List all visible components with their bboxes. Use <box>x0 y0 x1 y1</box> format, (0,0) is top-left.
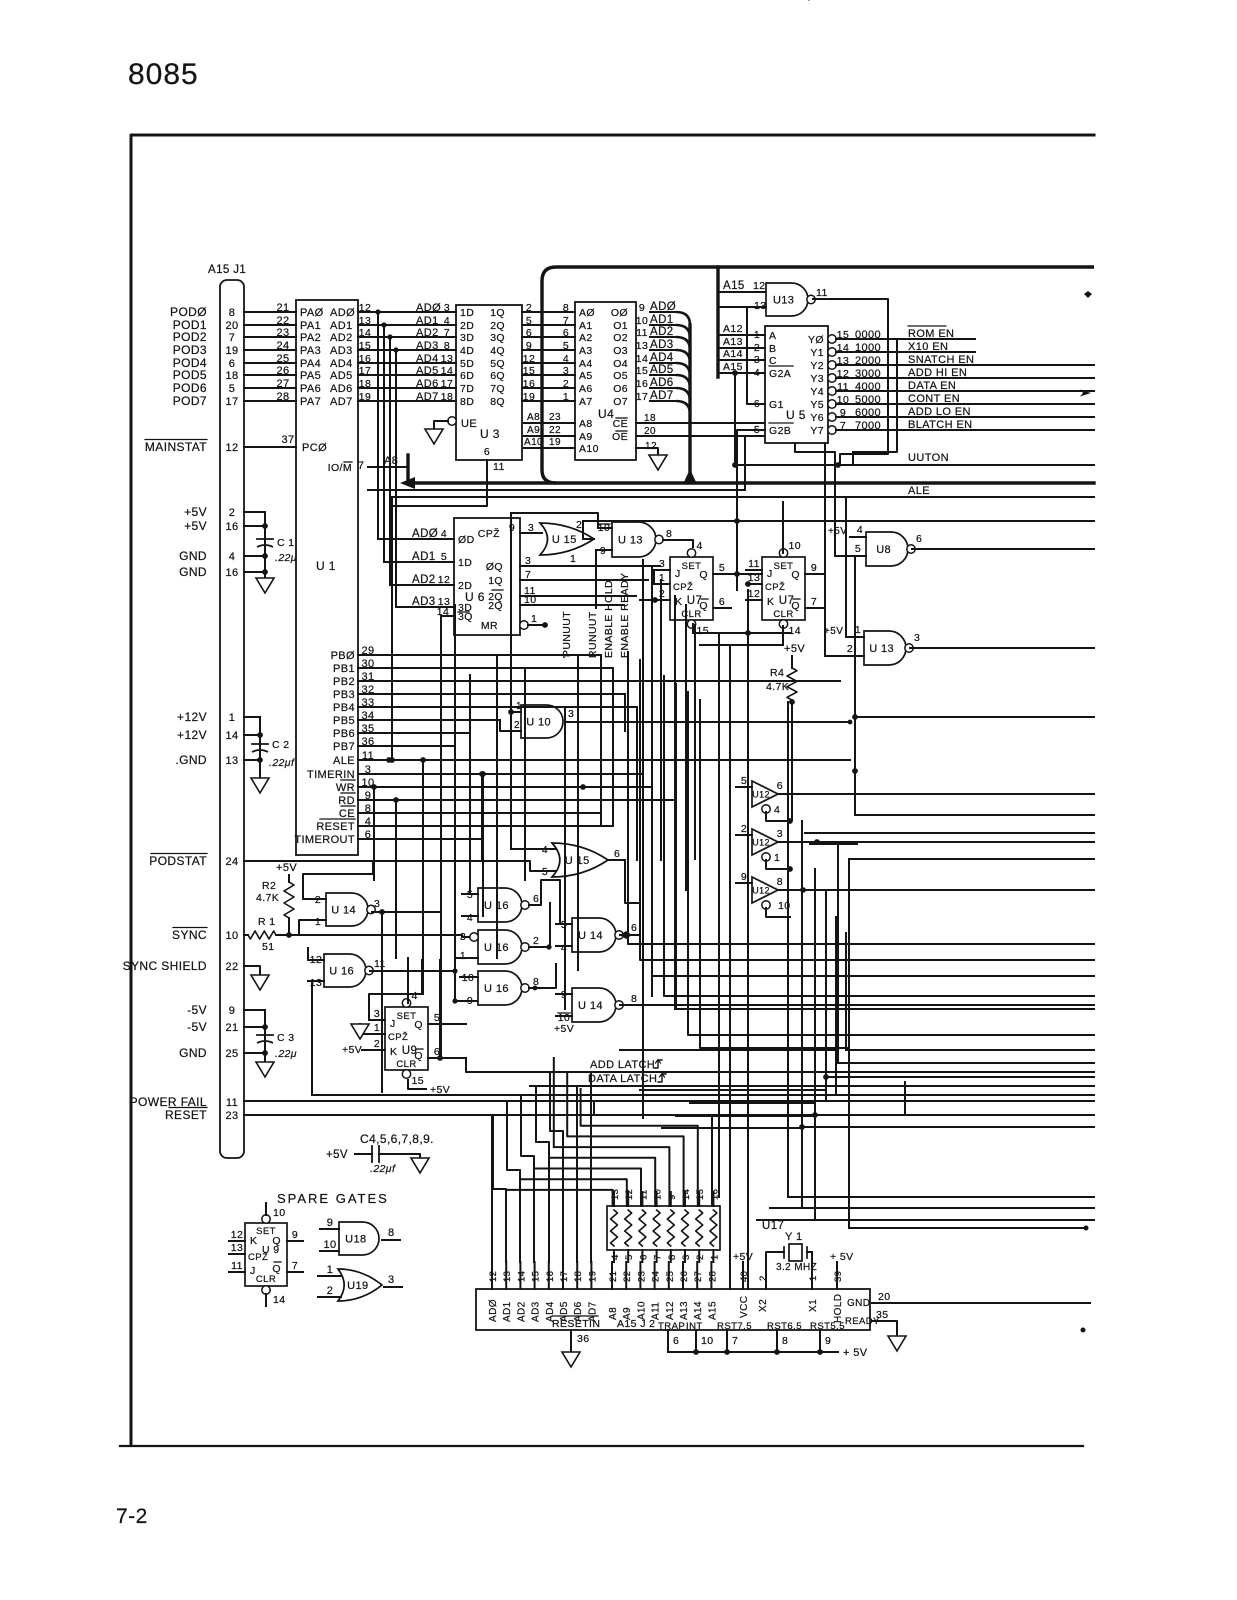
svg-text:J: J <box>767 568 773 580</box>
U5 G2B wire <box>737 430 765 590</box>
crystal wires <box>766 1252 779 1289</box>
U17 bottom pin 7 <box>656 1250 658 1262</box>
vertical x846 <box>845 497 847 637</box>
mid stub vertical 482 <box>481 774 483 860</box>
U17 resistor 8 <box>710 1210 717 1246</box>
nand U8 <box>866 532 908 566</box>
svg-text:11: 11 <box>636 327 648 339</box>
svg-text:19: 19 <box>225 345 238 357</box>
svg-text:+5V: +5V <box>824 626 843 637</box>
svg-text:6: 6 <box>673 1335 679 1347</box>
or U15 b <box>552 843 608 877</box>
bus wire x675 <box>674 596 676 1009</box>
resistor pack U17 <box>607 1206 720 1250</box>
riser dots <box>812 1112 818 1118</box>
svg-text:O1: O1 <box>613 320 628 332</box>
svg-text:R 1: R 1 <box>258 916 276 928</box>
svg-text:A12: A12 <box>723 323 743 335</box>
svg-text:9: 9 <box>327 1217 334 1229</box>
svg-text:PODØ: PODØ <box>170 305 207 319</box>
svg-text:A14: A14 <box>723 348 743 360</box>
svg-text:A15: A15 <box>723 280 745 292</box>
capacitor C2 .22uf <box>252 743 268 745</box>
bus corner U17 line 4 <box>554 1058 670 1206</box>
svg-text:U12: U12 <box>752 886 770 896</box>
net ROM EN <box>836 338 975 340</box>
svg-text:1Q: 1Q <box>490 307 505 319</box>
U17 bottom pin 3 <box>684 1250 686 1262</box>
U4 ground <box>649 455 667 470</box>
svg-text:11: 11 <box>493 461 505 473</box>
svg-text:28: 28 <box>276 391 289 403</box>
svg-text:PA2: PA2 <box>300 332 321 344</box>
svg-text:Q: Q <box>414 1019 423 1031</box>
svg-text:23: 23 <box>636 1271 647 1282</box>
wire J1 to U1 PA7 <box>244 400 296 402</box>
nand U16 c <box>478 930 522 964</box>
svg-text:3: 3 <box>444 302 450 314</box>
stray dot right <box>1081 1328 1086 1333</box>
svg-text:1: 1 <box>229 712 236 724</box>
svg-text:U17: U17 <box>762 1220 784 1232</box>
wire U3 to U4 A3 <box>522 349 575 351</box>
svg-text:1: 1 <box>774 852 780 864</box>
svg-text:PB1: PB1 <box>333 663 355 675</box>
J2 bottom +5V rail <box>668 1351 838 1353</box>
svg-text:4.7K: 4.7K <box>766 681 789 693</box>
svg-text:SET: SET <box>397 1011 417 1022</box>
junction dots C2 <box>257 732 263 738</box>
svg-text:ALE: ALE <box>908 485 930 497</box>
svg-text:2: 2 <box>576 519 582 531</box>
svg-text:+ 5V: + 5V <box>830 1251 854 1263</box>
svg-text:AD7: AD7 <box>416 391 439 403</box>
svg-text:3.2 MHZ: 3.2 MHZ <box>776 1262 817 1273</box>
svg-text:26: 26 <box>679 1271 690 1282</box>
svg-text:AD6: AD6 <box>416 378 439 390</box>
svg-text:AD3: AD3 <box>416 340 439 352</box>
ALE riser from U1 pin 11 <box>391 497 393 760</box>
decoder U5 <box>765 326 828 443</box>
svg-text:+5V: +5V <box>828 526 847 537</box>
U17 top pin 14 <box>684 1192 686 1206</box>
svg-text:U 14: U 14 <box>578 930 603 942</box>
net ALE <box>392 496 1094 498</box>
buffer U12 a <box>752 781 778 807</box>
net CONT EN <box>836 403 1094 405</box>
DATA EN arrowhead <box>1080 390 1091 397</box>
svg-text:C 3: C 3 <box>277 1032 295 1044</box>
svg-text:8: 8 <box>777 876 783 888</box>
svg-text:25: 25 <box>225 1048 238 1060</box>
svg-text:AD6: AD6 <box>330 383 353 395</box>
or U19 <box>338 1269 382 1301</box>
wire U3 to U4 A7 <box>522 400 575 402</box>
wire RESET <box>244 1114 905 1116</box>
ground C4 <box>411 1158 429 1173</box>
svg-text:+12V: +12V <box>177 728 207 742</box>
UUTON stub up <box>734 373 736 465</box>
bus line right y1100 <box>826 1100 1094 1102</box>
capacitor C3 .22u <box>257 1034 273 1036</box>
svg-text:27: 27 <box>276 378 289 390</box>
svg-text:K: K <box>390 1046 397 1058</box>
svg-text:3: 3 <box>528 522 534 534</box>
svg-text:PB6: PB6 <box>333 728 355 740</box>
bus line right y890 <box>849 889 1094 891</box>
U7a q wire <box>713 573 762 575</box>
and U10 <box>521 705 563 738</box>
bus wire v511 <box>510 513 512 849</box>
svg-text:3: 3 <box>681 1254 692 1260</box>
svg-text:GND: GND <box>847 1298 870 1309</box>
svg-text:9: 9 <box>292 1229 298 1241</box>
svg-text:3: 3 <box>388 1274 395 1286</box>
svg-text:12: 12 <box>748 588 760 600</box>
bus elbow AD0 <box>676 312 690 325</box>
svg-text:36: 36 <box>577 1333 589 1345</box>
svg-text:17: 17 <box>225 396 238 408</box>
svg-text:VCC: VCC <box>739 1296 750 1318</box>
wire U1 AD3 to U3 <box>358 349 456 351</box>
svg-text:9: 9 <box>639 302 645 314</box>
svg-text:4.7K: 4.7K <box>256 892 279 904</box>
svg-text:3: 3 <box>914 632 920 644</box>
svg-text:U18: U18 <box>345 1234 366 1246</box>
svg-text:20: 20 <box>225 320 238 332</box>
svg-text:14: 14 <box>441 365 453 377</box>
or U15 a <box>540 523 594 555</box>
svg-text:O6: O6 <box>613 383 628 395</box>
svg-text:U19: U19 <box>347 1280 368 1292</box>
U7b set wire <box>782 502 784 553</box>
svg-text:8D: 8D <box>460 396 474 408</box>
bus wire v497 <box>496 655 498 958</box>
bus line bottom y1220 <box>757 1219 1094 1221</box>
svg-text:PAØ: PAØ <box>300 307 324 319</box>
wire U1 TIMERIN <box>358 773 643 775</box>
svg-text:7: 7 <box>653 1254 664 1260</box>
svg-text:4Q: 4Q <box>490 345 505 357</box>
svg-text:+5V: +5V <box>184 519 207 533</box>
svg-text:22: 22 <box>622 1271 633 1282</box>
svg-text:2D: 2D <box>460 320 474 332</box>
U17 bottom pin 2 <box>698 1250 700 1262</box>
svg-text:7-2: 7-2 <box>116 1505 148 1528</box>
svg-text:A11: A11 <box>651 1302 662 1320</box>
bus corner U17 line 5 <box>549 1158 655 1206</box>
bus corner mid fan y1035 <box>688 692 849 1035</box>
U17 bottom pin 4 <box>613 1250 615 1262</box>
svg-text:+5V: +5V <box>184 505 207 519</box>
svg-text:8: 8 <box>631 993 637 1005</box>
svg-text:G2B: G2B <box>769 425 791 437</box>
svg-text:OØ: OØ <box>611 307 628 319</box>
svg-text:A13: A13 <box>679 1301 690 1320</box>
svg-text:5: 5 <box>855 543 861 555</box>
svg-text:7: 7 <box>292 1260 298 1272</box>
resistor R4 4.7K <box>791 656 793 668</box>
bus wire v470 <box>469 675 471 894</box>
svg-text:10: 10 <box>225 930 238 942</box>
svg-text:PB5: PB5 <box>333 715 355 727</box>
U7a clr wire <box>692 624 694 633</box>
svg-text:PBØ: PBØ <box>331 650 355 662</box>
svg-text:21: 21 <box>608 1271 619 1282</box>
end dot bottom line <box>1084 1226 1089 1231</box>
svg-text:K: K <box>250 1235 257 1247</box>
capacitor C4 .22uf <box>355 1153 372 1155</box>
svg-text:14: 14 <box>273 1294 285 1306</box>
svg-text:1: 1 <box>808 1275 819 1281</box>
ground C2 <box>251 778 269 793</box>
svg-text:A15: A15 <box>707 1301 718 1320</box>
bus corner U17 line 8 <box>506 1190 613 1206</box>
wire J1 to U1 PA5 <box>244 374 296 376</box>
svg-text:O3: O3 <box>613 345 628 357</box>
svg-text:CLR: CLR <box>773 609 793 620</box>
svg-text:1: 1 <box>531 613 537 625</box>
svg-text:A10: A10 <box>524 437 543 448</box>
tap AD2 down to U6 <box>389 337 391 585</box>
svg-text:1: 1 <box>327 1264 334 1276</box>
flipflop U9 spare <box>245 1223 287 1286</box>
svg-text:A9: A9 <box>527 425 540 436</box>
bus corner AD4 <box>536 1086 549 1262</box>
capacitor C1 .22u <box>257 538 273 540</box>
wire U3 to U4 A1 <box>522 324 575 326</box>
wire dots U1 rows <box>371 784 377 790</box>
svg-text:9: 9 <box>467 995 473 1007</box>
bus wire v455 <box>454 605 456 1001</box>
svg-text:A7: A7 <box>579 396 593 408</box>
wires -5V GND to C3 <box>244 1009 265 1011</box>
U7b clr wire <box>782 626 784 645</box>
svg-text:CPŽ: CPŽ <box>765 582 785 593</box>
wire U1 WR <box>358 786 652 788</box>
wire U1 PB7 run <box>358 745 455 747</box>
svg-text:ROM EN: ROM EN <box>908 328 954 340</box>
svg-text:PA3: PA3 <box>300 345 321 357</box>
svg-text:12: 12 <box>645 441 657 452</box>
wire J1 to U1 PA1 <box>244 324 296 326</box>
bus corner AD5 <box>550 1072 563 1262</box>
svg-text:14: 14 <box>789 625 801 637</box>
svg-text:7: 7 <box>444 327 450 339</box>
svg-text:ƤUNUUT: ƤUNUUT <box>561 611 573 658</box>
mid line y1128 <box>662 1127 802 1129</box>
svg-text:UE: UE <box>461 418 477 430</box>
nand U16 a <box>324 954 366 987</box>
svg-text:AD7: AD7 <box>330 396 353 408</box>
svg-text:6D: 6D <box>460 370 474 382</box>
svg-text:11: 11 <box>231 1260 243 1272</box>
svg-text:15: 15 <box>531 1271 542 1282</box>
svg-text:3: 3 <box>777 828 783 840</box>
svg-text:ENABLE READY: ENABLE READY <box>619 573 631 658</box>
wire J1 to U1 PA6 <box>244 387 296 389</box>
svg-text:22: 22 <box>549 425 561 436</box>
wire U1 PB3 run <box>358 693 625 695</box>
svg-text:A5: A5 <box>579 370 593 382</box>
svg-text:AD3: AD3 <box>330 345 353 357</box>
U17 resistor 5 <box>667 1210 674 1246</box>
ground C3 <box>256 1062 274 1077</box>
svg-text:10: 10 <box>701 1335 713 1347</box>
svg-text:5D: 5D <box>460 358 474 370</box>
svg-text:IO/M: IO/M <box>328 462 352 474</box>
buffer U12 b <box>752 829 778 855</box>
svg-text:6Q: 6Q <box>490 370 505 382</box>
junction A15 <box>732 370 738 376</box>
svg-text:13: 13 <box>441 353 453 365</box>
U17 resistor 4 <box>653 1210 660 1246</box>
bus corner U17 line 7 <box>520 1179 627 1206</box>
svg-text:4: 4 <box>229 551 236 563</box>
svg-text:CPŽ: CPŽ <box>478 527 500 540</box>
U17 bottom pin 5 <box>627 1250 629 1262</box>
svg-text:CE: CE <box>339 808 355 820</box>
svg-text:2: 2 <box>327 1285 334 1297</box>
bus wire x730 <box>729 645 731 1289</box>
thick bus bottom rail <box>409 481 1094 484</box>
svg-text:6: 6 <box>229 358 236 370</box>
svg-text:2Q: 2Q <box>488 600 503 612</box>
bus corner U17 line 6 <box>534 1169 641 1207</box>
svg-text:25: 25 <box>665 1271 676 1282</box>
nand U16 b <box>478 888 522 922</box>
svg-text:7: 7 <box>563 315 569 327</box>
wire J1 to U1 PA3 <box>244 349 296 351</box>
bus corner AD3 <box>521 1095 534 1262</box>
latch U3 <box>456 305 522 460</box>
mid line y1050 <box>620 1049 838 1051</box>
svg-text:2: 2 <box>514 720 520 731</box>
bus line right y1090 <box>836 1094 1094 1096</box>
svg-text:.22μf: .22μf <box>370 1163 396 1175</box>
wire U1 PB5 run <box>358 719 500 721</box>
svg-text:CLR: CLR <box>256 1274 276 1285</box>
svg-text:27: 27 <box>693 1271 704 1282</box>
U17 bottom pin 6 <box>641 1250 643 1262</box>
svg-text:.22μf: .22μf <box>269 757 295 769</box>
svg-text:4: 4 <box>412 990 418 1002</box>
svg-text:CE: CE <box>613 418 628 430</box>
svg-text:2: 2 <box>563 378 569 390</box>
bus line right y1009 <box>849 1008 1094 1010</box>
svg-text:Y 1: Y 1 <box>785 1231 803 1243</box>
svg-text:U 1: U 1 <box>316 559 336 573</box>
ground RESETIN <box>562 1352 580 1367</box>
bus elbow AD6 <box>676 388 690 401</box>
U7b cp junction <box>745 581 751 587</box>
svg-text:1: 1 <box>563 391 569 403</box>
svg-text:G2A: G2A <box>769 368 791 380</box>
wire J1 to U1 PA2 <box>244 336 296 338</box>
wire U1 TIMEROUT <box>358 838 482 840</box>
wires +5V GND to C1 <box>244 511 265 513</box>
svg-text:ØQ: ØQ <box>486 561 503 573</box>
svg-text:4: 4 <box>563 353 569 365</box>
svg-text:+ 5V: + 5V <box>843 1347 868 1359</box>
bus corner AD2 <box>507 1101 520 1262</box>
U9 wrap wire <box>311 981 313 1095</box>
svg-text:O4: O4 <box>613 358 628 370</box>
bus wire x661 <box>660 580 662 860</box>
svg-text:4: 4 <box>774 804 780 816</box>
svg-text:POD3: POD3 <box>173 343 207 357</box>
svg-text:12: 12 <box>225 442 238 454</box>
svg-text:6: 6 <box>484 446 490 458</box>
U3 pin 6 wire 11 <box>390 460 487 506</box>
U14a out riser <box>381 913 383 1092</box>
svg-text:C4,5,6,7,8,9.: C4,5,6,7,8,9. <box>360 1132 434 1146</box>
svg-text:U 16: U 16 <box>329 966 354 978</box>
svg-text:A1: A1 <box>579 320 593 332</box>
svg-text:BLATCH EN: BLATCH EN <box>908 419 973 431</box>
PB5 to U10 pin2 <box>500 720 521 731</box>
bus line right y1063 <box>838 1062 1094 1064</box>
svg-text:15: 15 <box>412 1075 424 1087</box>
svg-text:C 2: C 2 <box>272 739 290 751</box>
svg-text:28: 28 <box>707 1271 718 1282</box>
wire U1 ALE <box>358 759 850 761</box>
svg-text:10: 10 <box>273 1207 285 1219</box>
svg-text:22: 22 <box>276 315 289 327</box>
svg-text:16: 16 <box>636 378 648 390</box>
bus wire x719 <box>718 633 720 1197</box>
svg-text:A9: A9 <box>579 431 593 443</box>
long line y521 <box>583 520 1094 522</box>
svg-text:SET: SET <box>682 561 702 572</box>
svg-text:18: 18 <box>573 1271 584 1282</box>
svg-text:Y5: Y5 <box>810 399 824 411</box>
bus corner mid fan y944 <box>628 652 849 944</box>
svg-text:8: 8 <box>563 302 569 314</box>
svg-text:A4: A4 <box>579 358 593 370</box>
wire U1 CE <box>358 812 601 814</box>
svg-text:6: 6 <box>631 922 637 934</box>
wire U1 AD6 to U3 <box>358 387 456 389</box>
svg-text:5: 5 <box>741 775 747 787</box>
connector J2 <box>476 1289 870 1330</box>
svg-text:2: 2 <box>533 935 539 947</box>
U17 top pin 16 <box>712 1192 714 1206</box>
svg-text:ADD LO EN: ADD LO EN <box>908 406 971 418</box>
svg-text:10: 10 <box>789 540 801 552</box>
bus line bottom y1208 <box>770 1207 1094 1209</box>
svg-text:8: 8 <box>666 528 672 540</box>
mid line y1116 <box>676 1115 815 1117</box>
svg-text:7: 7 <box>229 332 236 344</box>
U17 bottom pin 8 <box>670 1250 672 1262</box>
wire U1 PB0 run <box>358 654 601 656</box>
svg-text:.22μ: .22μ <box>275 552 297 564</box>
U4 A8 A9 A10 wires <box>524 422 575 424</box>
svg-text:15: 15 <box>636 365 648 377</box>
nand U13 top <box>766 283 808 316</box>
svg-text:AD4: AD4 <box>416 353 439 365</box>
svg-text:+5V: +5V <box>784 643 805 655</box>
svg-text:A6: A6 <box>579 383 593 395</box>
net DATA EN <box>836 390 1094 392</box>
svg-text:7: 7 <box>811 596 817 608</box>
svg-text:2: 2 <box>374 1038 380 1050</box>
bus line right y1115 <box>815 1114 1094 1116</box>
svg-text:7: 7 <box>732 1335 738 1347</box>
svg-text:A10: A10 <box>579 443 599 455</box>
svg-text:6: 6 <box>916 533 922 545</box>
